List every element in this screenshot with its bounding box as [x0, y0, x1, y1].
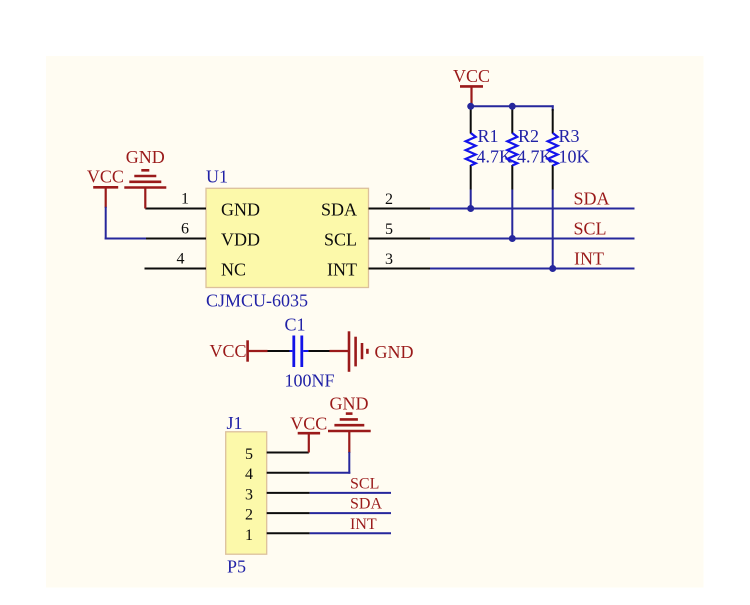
- svg-text:R1: R1: [478, 126, 499, 146]
- resistor R2 zigzag: [507, 133, 517, 165]
- svg-text:NC: NC: [221, 259, 246, 279]
- svg-text:SCL: SCL: [574, 219, 607, 239]
- pin 1 stub: [145, 208, 206, 210]
- svg-text:R2: R2: [518, 126, 539, 146]
- svg-text:1: 1: [181, 191, 189, 208]
- svg-text:INT: INT: [327, 259, 357, 279]
- resistor R2 pins: [511, 106, 513, 133]
- C1 right stub: [303, 350, 308, 352]
- svg-text:C1: C1: [285, 315, 306, 335]
- svg-text:6: 6: [181, 221, 189, 238]
- svg-text:2: 2: [385, 191, 393, 208]
- IC U1 body: [206, 188, 369, 287]
- ground symbol rotated (4 bars): [349, 331, 367, 372]
- junction bus/R2: [509, 103, 516, 110]
- svg-text:VCC: VCC: [453, 66, 490, 86]
- svg-text:INT: INT: [574, 249, 604, 269]
- top bus wire: [471, 105, 554, 107]
- pin 4 stub: [145, 268, 207, 270]
- wire GND to pin4 (vertical): [348, 452, 350, 474]
- ground symbol (4 bars): [124, 170, 166, 187]
- resistor R3 zigzag: [548, 133, 558, 165]
- VCC stem: [105, 187, 107, 208]
- pin 2 stub: [267, 512, 310, 514]
- svg-text:VDD: VDD: [221, 229, 260, 249]
- GND stem: [348, 431, 350, 453]
- svg-text:VCC: VCC: [210, 341, 247, 361]
- VCC stem: [308, 433, 310, 452]
- ground symbol (4 bars): [328, 414, 371, 431]
- capacitor C1 plates: [292, 336, 295, 368]
- svg-text:10K: 10K: [559, 147, 590, 167]
- wire R2 to SCL: [511, 190, 513, 239]
- VCC bar (vertical): [246, 340, 249, 361]
- svg-text:2: 2: [245, 507, 253, 524]
- wire INT: [430, 268, 635, 270]
- svg-text:3: 3: [245, 486, 253, 503]
- svg-text:SCL: SCL: [350, 475, 379, 492]
- svg-text:VCC: VCC: [87, 166, 124, 186]
- pin 3 stub: [369, 268, 431, 270]
- wire SDA: [430, 208, 635, 210]
- svg-text:1: 1: [245, 527, 253, 544]
- svg-text:100NF: 100NF: [285, 371, 335, 391]
- resistor R1 pins: [470, 106, 472, 133]
- svg-text:VCC: VCC: [290, 414, 327, 434]
- svg-text:5: 5: [245, 446, 253, 463]
- ground stem: [144, 188, 146, 209]
- svg-text:GND: GND: [221, 199, 260, 219]
- svg-text:INT: INT: [350, 516, 377, 533]
- VCC bar: [93, 186, 118, 189]
- svg-text:GND: GND: [330, 393, 369, 413]
- wire GND to pin4 (horizontal): [310, 472, 351, 474]
- svg-text:CJMCU-6035: CJMCU-6035: [206, 291, 308, 311]
- svg-text:R3: R3: [559, 126, 580, 146]
- wire SCL: [430, 238, 635, 240]
- C1 left stub: [290, 350, 293, 352]
- C1 right pin: [308, 350, 329, 352]
- pin 3 stub: [267, 492, 310, 494]
- svg-text:SCL: SCL: [324, 229, 357, 249]
- R3 top corner wire: [552, 105, 554, 111]
- pin 5 stub: [369, 238, 431, 240]
- pin 4 stub: [267, 472, 310, 474]
- wire R1 to SDA: [470, 190, 472, 209]
- svg-text:4: 4: [177, 251, 185, 268]
- junction R2/SCL: [509, 235, 516, 242]
- pin 6 stub: [145, 238, 206, 240]
- svg-text:SDA: SDA: [574, 189, 610, 209]
- svg-text:SDA: SDA: [350, 496, 382, 513]
- svg-text:3: 3: [385, 251, 393, 268]
- resistor R1 zigzag: [466, 133, 476, 165]
- VCC stem: [470, 86, 472, 106]
- svg-text:P5: P5: [227, 557, 246, 577]
- VCC stem: [248, 350, 268, 352]
- svg-text:SDA: SDA: [321, 199, 357, 219]
- C1 left pin: [268, 350, 290, 352]
- junction R3/INT: [549, 265, 556, 272]
- pin 5 stub: [267, 452, 309, 454]
- svg-text:5: 5: [385, 221, 393, 238]
- wire SCL (J1 pin3): [310, 492, 391, 494]
- svg-text:U1: U1: [206, 167, 228, 187]
- pin 2 stub: [369, 208, 431, 210]
- svg-text:GND: GND: [126, 147, 165, 167]
- wire VCC to pin6 (vertical): [105, 207, 107, 240]
- svg-text:J1: J1: [227, 413, 243, 433]
- svg-text:4: 4: [245, 466, 253, 483]
- wire SDA (J1 pin2): [310, 512, 391, 514]
- junction VCC/R1: [467, 103, 474, 110]
- connector J1 body: [226, 432, 267, 554]
- wire R3 to INT: [552, 190, 554, 269]
- wire INT (J1 pin1): [310, 532, 391, 534]
- resistor R3 pins: [552, 109, 554, 134]
- svg-text:GND: GND: [375, 342, 414, 362]
- GND stem (horizontal): [330, 350, 349, 352]
- VCC bar: [298, 432, 320, 435]
- pin 1 stub: [267, 532, 310, 534]
- wire VCC to pin6 (horizontal): [105, 238, 146, 240]
- junction R1/SDA: [467, 205, 474, 212]
- VCC bar: [460, 85, 483, 88]
